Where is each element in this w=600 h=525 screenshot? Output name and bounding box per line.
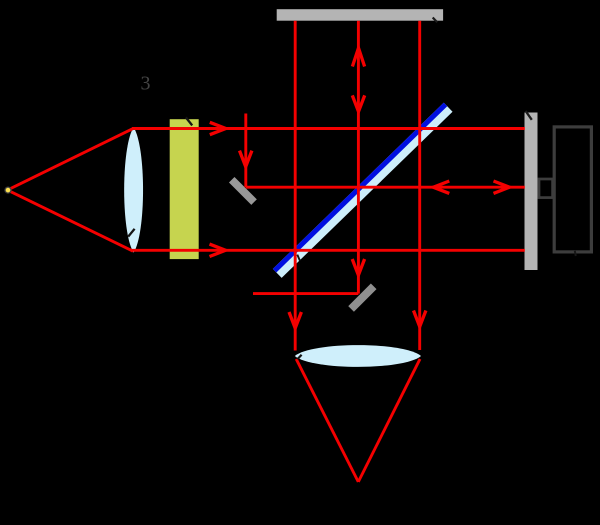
arrowhead down on middle vertical below beamsplitter [352,259,364,275]
wire: ray source to lens bottom [11,192,134,252]
light source [5,187,11,193]
arrowhead right on bottom ray [210,244,226,256]
wire: bottom horizontal ray y=250.3 [132,249,525,252]
fold mirror M2 [348,283,376,311]
wire: converging ray right to focus [358,359,420,482]
wire: left vertical ray x=295.2 [294,21,297,351]
wire: top horizontal ray y=128.5 [132,127,525,130]
glass plate (green) [170,119,199,259]
right mirror bar [525,113,538,271]
top mirror [277,9,443,21]
arrowhead down on M1 drop line [240,151,252,167]
collimating lens L1 [124,127,143,252]
leader tick on glass plate [186,117,192,125]
arrowhead up (double arrow, middle vertical) [352,48,364,67]
fold mirror M1 [229,177,257,205]
leader tick on right mirror [526,111,532,120]
actuator box [554,127,591,252]
leader tick on actuator box bottom [575,251,576,256]
arrowhead right on top ray [210,122,226,134]
wire: output line from fold mirror M2 y=293.6 [253,292,358,295]
wire: ray source to lens top [11,129,134,189]
arrowhead down on right vertical above bottom lens [414,311,426,327]
beamsplitter plate [273,103,453,278]
arrowhead down on left vertical above bottom lens [289,312,301,328]
focusing lens L2 [295,345,421,367]
wire: right vertical ray x=419.7 [418,21,421,350]
arrowhead down (double arrow, middle vertical) [352,95,364,111]
leader tick on lens L1 [128,229,134,237]
leader tick on beamsplitter lower end [297,255,300,261]
wire: drop line to fold mirror M1 [244,114,247,188]
svg-text:3: 3 [141,73,151,95]
leader tick on lens L2 [297,355,301,360]
wire: middle vertical ray x=358.4 [357,21,360,294]
wire: middle horizontal ray y=187.2 [246,186,525,189]
actuator connector [539,179,553,198]
arrowhead right (double arrow, middle horizontal) [494,181,510,193]
wire: converging ray left to focus [296,359,358,482]
arrowhead left (double arrow, middle horizontal) [433,181,449,193]
leader tick on top mirror [433,18,438,23]
